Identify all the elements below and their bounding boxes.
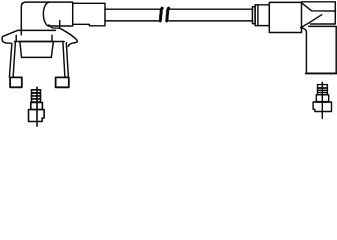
wire right segment <box>169 9 253 21</box>
bracket bar top edge <box>18 29 56 31</box>
wire left segment <box>105 9 160 21</box>
bar inner vertical left <box>15 35 17 41</box>
bracket left leg <box>9 42 15 78</box>
right spark plug icon <box>313 82 331 118</box>
bracket left foot <box>10 77 22 87</box>
bracket bar bottom edge <box>14 41 64 43</box>
right elbow boot horizontal part <box>301 2 336 28</box>
left spark plug icon <box>29 87 45 126</box>
cable nipple <box>73 3 105 26</box>
right connector ferrule cap <box>252 7 255 24</box>
left boot cylinder with elliptical cap <box>43 2 72 28</box>
cable break mark left <box>160 8 162 21</box>
bracket left wing <box>2 30 18 43</box>
right connector ferrule body <box>255 5 269 26</box>
bracket right hook wing <box>60 28 78 46</box>
bar inner vertical right <box>51 35 53 41</box>
cable break mark right <box>167 8 169 21</box>
right connector body rect <box>269 2 301 32</box>
bracket right leg <box>63 42 69 78</box>
elbow down tube <box>301 26 337 73</box>
left boot body <box>21 2 59 35</box>
bracket right foot <box>56 77 69 87</box>
bracket trapezoid plate <box>20 42 54 58</box>
